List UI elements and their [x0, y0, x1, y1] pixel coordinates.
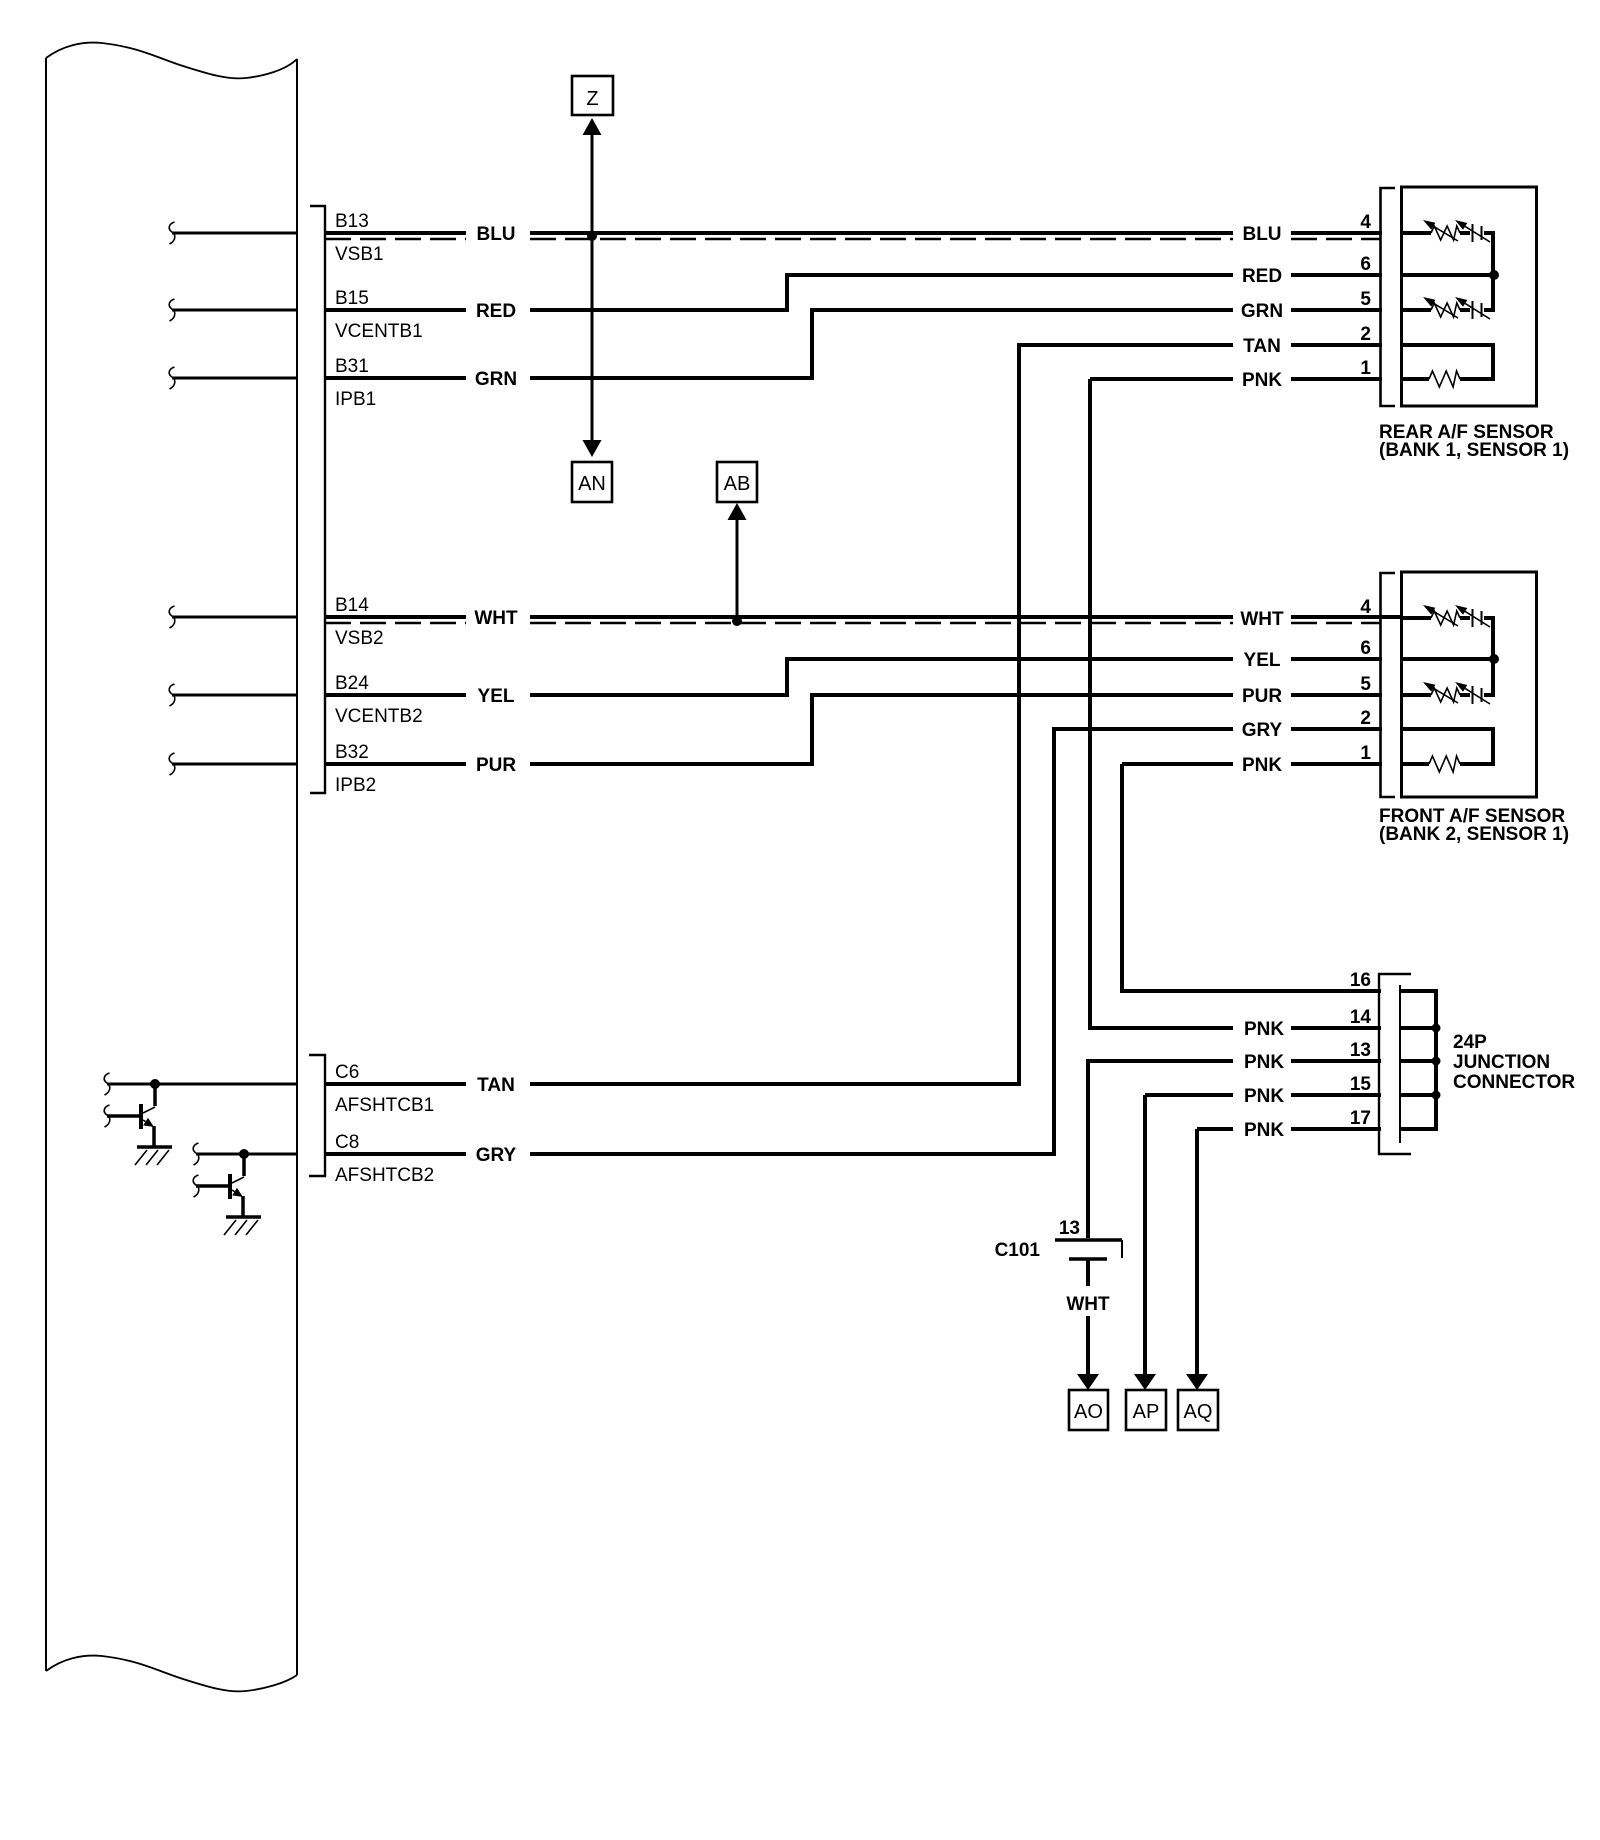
shield dashed line for BLU wire [325, 238, 1380, 240]
label REAR A/F SENSOR [1379, 422, 1569, 461]
svg-text:VCENTB1: VCENTB1 [335, 321, 423, 342]
node box AN [572, 462, 612, 502]
wire label WHT (right) [1240, 609, 1284, 630]
svg-text:13: 13 [1350, 1040, 1371, 1061]
wire PNK (rear A/F sensor pin 1 to 24P junction pin 14) [1090, 379, 1436, 1028]
svg-text:C6: C6 [335, 1062, 359, 1083]
svg-text:PUR: PUR [476, 755, 516, 776]
wire PNK (24P junction pin 17 to AQ) [1197, 1129, 1436, 1374]
wire label TAN (left) [477, 1075, 515, 1096]
wire label YEL (left) [478, 686, 515, 707]
arrowhead into AQ [1186, 1374, 1208, 1390]
node box AO [1069, 1390, 1108, 1430]
transistor Q2 (AFSHTCB2 heater driver) with ground [193, 1149, 261, 1235]
rear A/F sensor heater circuit wire (pin 2) [1403, 345, 1493, 379]
svg-text:WHT: WHT [474, 608, 518, 629]
wire label WHT (C101 to AO) [1066, 1294, 1110, 1315]
transistor Q1 (AFSHTCB1 heater driver) with ground [104, 1079, 172, 1165]
wire label GRN (left) [475, 369, 517, 390]
wire GRY (AFSHTCB2, C8 to front A/F sensor pin 2) [325, 729, 1382, 1154]
svg-text:BLU: BLU [476, 224, 515, 245]
svg-text:IPB2: IPB2 [335, 775, 376, 796]
24P junction connector bus [1434, 989, 1438, 1131]
svg-text:VSB2: VSB2 [335, 628, 384, 649]
wire label YEL (right) [1244, 650, 1281, 671]
svg-text:BLU: BLU [1242, 224, 1281, 245]
svg-text:17: 17 [1350, 1108, 1371, 1129]
svg-text:6: 6 [1360, 638, 1371, 659]
wire label PUR (right) [1242, 686, 1282, 707]
svg-text:VSB1: VSB1 [335, 244, 384, 265]
label FRONT A/F SENSOR [1379, 806, 1569, 845]
svg-text:C101: C101 [995, 1240, 1041, 1261]
junction dot on WHT wire at AB arrow [732, 616, 742, 626]
shield dashed line for WHT wire [325, 622, 1380, 624]
wire GRN (IPB1, B31 to rear A/F sensor pin 5) [325, 310, 1382, 378]
svg-text:PNK: PNK [1244, 1019, 1284, 1040]
wire RED (VCENTB1, B15 to rear A/F sensor pin 6) [325, 275, 1382, 310]
pin label B31 / IPB1 [335, 356, 376, 410]
front sensor pin number 4 [1360, 597, 1371, 618]
wire PNK (C101 to 24P junction pin 13) [1088, 1061, 1436, 1238]
wire BLU (VSB1, B13 to rear A/F sensor pin 4) [325, 231, 1382, 235]
svg-text:1: 1 [1360, 743, 1371, 764]
svg-text:WHT: WHT [1066, 1294, 1110, 1315]
wire PNK (24P junction pin 15 to AP) [1145, 1095, 1436, 1374]
node box AQ [1178, 1390, 1218, 1430]
front A/F sensor connector housing [1381, 572, 1537, 797]
svg-text:B32: B32 [335, 742, 369, 763]
front A/F sensor heater resistor (pin 1) [1403, 756, 1495, 772]
ECM internal wire stub for pin C6 [104, 1073, 297, 1095]
pin label B13 / VSB1 [335, 211, 384, 265]
svg-text:PNK: PNK [1242, 370, 1282, 391]
ECM internal wire stub for pin B32 [169, 753, 297, 775]
24P junction connector bracket [1379, 974, 1411, 1154]
svg-text:6: 6 [1360, 254, 1371, 275]
wire label GRY (left) [476, 1145, 517, 1166]
wire label PNK (junction pin 14) [1244, 1019, 1284, 1040]
ECM internal wire stub for pin C8 [193, 1143, 297, 1165]
svg-text:C8: C8 [335, 1132, 359, 1153]
svg-text:B13: B13 [335, 211, 369, 232]
svg-text:4: 4 [1360, 212, 1371, 233]
wire WHT (C101 to AO) [1077, 1259, 1099, 1390]
svg-text:B15: B15 [335, 288, 369, 309]
front A/F sensor heater circuit wire (pin 2) [1403, 729, 1493, 764]
wire label PNK (junction pin 17) [1244, 1120, 1284, 1141]
svg-text:YEL: YEL [1244, 650, 1281, 671]
wire YEL (VCENTB2, B24 to front A/F sensor pin 6) [325, 659, 1382, 695]
svg-text:2: 2 [1360, 708, 1371, 729]
svg-text:RED: RED [1242, 266, 1282, 287]
rear sensor pin number 5 [1360, 289, 1371, 310]
wire label GRY (right) [1242, 720, 1283, 741]
svg-text:PNK: PNK [1244, 1120, 1284, 1141]
node box AB [717, 462, 757, 502]
svg-text:Z: Z [586, 88, 598, 110]
rear A/F sensor element (pin 5 cell) [1403, 297, 1495, 319]
front sensor pin number 6 [1360, 638, 1371, 659]
svg-text:RED: RED [476, 301, 516, 322]
node box AP [1126, 1390, 1166, 1430]
svg-text:VCENTB2: VCENTB2 [335, 706, 423, 727]
pin label C8 / AFSHTCB2 [335, 1132, 434, 1186]
svg-text:B14: B14 [335, 595, 369, 616]
wire WHT (VSB2, B14 to front A/F sensor pin 4) [325, 615, 1403, 619]
svg-text:16: 16 [1350, 970, 1371, 991]
ECM internal wire stub for pin B31 [169, 367, 297, 389]
svg-text:GRN: GRN [475, 369, 517, 390]
C101 pin number 13 [1059, 1218, 1080, 1239]
arrowhead into AP [1134, 1374, 1156, 1390]
24P junction connector housing line [1399, 985, 1401, 1143]
svg-text:YEL: YEL [478, 686, 515, 707]
node box Z [572, 76, 613, 115]
ECM (engine control module) body, partial outline [46, 43, 297, 1692]
svg-text:1: 1 [1360, 358, 1371, 379]
svg-text:14: 14 [1350, 1007, 1372, 1028]
svg-text:B24: B24 [335, 673, 369, 694]
front sensor pin number 5 [1360, 674, 1371, 695]
junction dot bus pin 14 [1432, 1024, 1441, 1033]
rear A/F sensor junction dot at pin 6 [1403, 270, 1499, 280]
svg-text:PUR: PUR [1242, 686, 1282, 707]
svg-text:JUNCTION: JUNCTION [1453, 1052, 1550, 1073]
rear sensor pin number 6 [1360, 254, 1371, 275]
pin label B15 / VCENTB1 [335, 288, 423, 342]
junction connector pin number 17 [1350, 1108, 1371, 1129]
rear A/F sensor connector housing [1381, 187, 1537, 406]
svg-text:IPB1: IPB1 [335, 389, 376, 410]
svg-text:5: 5 [1360, 289, 1371, 310]
pin label B32 / IPB2 [335, 742, 376, 796]
wire label BLU (right) [1242, 224, 1281, 245]
front A/F sensor element (pin 4 cell) [1403, 605, 1495, 627]
wire label WHT (left) [474, 608, 518, 629]
ECM connector B bracket [310, 206, 325, 793]
wire label RED (left) [476, 301, 516, 322]
svg-text:GRY: GRY [1242, 720, 1283, 741]
svg-text:PNK: PNK [1244, 1052, 1284, 1073]
pin label B24 / VCENTB2 [335, 673, 423, 727]
rear sensor pin number 2 [1360, 324, 1371, 345]
svg-text:2: 2 [1360, 324, 1371, 345]
C101 reference label [995, 1240, 1041, 1261]
svg-text:TAN: TAN [477, 1075, 515, 1096]
rear sensor pin number 4 [1360, 212, 1371, 233]
svg-text:AFSHTCB2: AFSHTCB2 [335, 1165, 434, 1186]
svg-text:AO: AO [1074, 1401, 1103, 1423]
svg-text:5: 5 [1360, 674, 1371, 695]
ECM internal wire stub for pin B15 [169, 299, 297, 321]
svg-text:AN: AN [578, 473, 606, 495]
wire TAN (AFSHTCB1, C6 to rear A/F sensor pin 2) [325, 345, 1382, 1084]
interconnect arrow to AB [728, 503, 747, 619]
pin label B14 / VSB2 [335, 595, 384, 649]
svg-text:AFSHTCB1: AFSHTCB1 [335, 1095, 434, 1116]
svg-text:WHT: WHT [1240, 609, 1284, 630]
junction connector pin number 14 [1350, 1007, 1372, 1028]
svg-text:CONNECTOR: CONNECTOR [1453, 1072, 1575, 1093]
svg-text:AQ: AQ [1184, 1401, 1213, 1423]
front sensor pin number 2 [1360, 708, 1371, 729]
wire label GRN (right) [1241, 301, 1283, 322]
svg-text:TAN: TAN [1243, 336, 1281, 357]
pin label C6 / AFSHTCB1 [335, 1062, 434, 1116]
junction connector pin number 15 [1350, 1074, 1372, 1095]
svg-text:PNK: PNK [1242, 755, 1282, 776]
svg-text:PNK: PNK [1244, 1086, 1284, 1107]
ECM internal wire stub for pin B24 [169, 684, 297, 706]
junction dot on BLU wire at Z/AN arrow [587, 231, 597, 241]
svg-text:GRN: GRN [1241, 301, 1283, 322]
wire label RED (right) [1242, 266, 1282, 287]
wire label PUR (left) [476, 755, 516, 776]
wire label PNK (junction pin 15) [1244, 1086, 1284, 1107]
label 24P JUNCTION CONNECTOR [1453, 1032, 1575, 1093]
svg-text:AB: AB [724, 473, 751, 495]
rear sensor pin number 1 [1360, 358, 1371, 379]
rear A/F sensor element (pin 4 cell) [1403, 220, 1495, 242]
wire label PNK (front sensor pin 1) [1242, 755, 1282, 776]
front sensor pin number 1 [1360, 743, 1371, 764]
front A/F sensor junction dot at pin 6 [1403, 654, 1499, 664]
svg-text:24P: 24P [1453, 1032, 1487, 1053]
wire label TAN (right) [1243, 336, 1281, 357]
wire label BLU (left) [476, 224, 515, 245]
wire PUR (IPB2, B32 to front A/F sensor pin 5) [325, 695, 1382, 764]
svg-text:(BANK 1, SENSOR 1): (BANK 1, SENSOR 1) [1379, 440, 1569, 461]
interconnect arrow Z to AN (double headed) [583, 118, 602, 457]
front A/F sensor internal wire pin4-pin6-pin5 [1491, 616, 1495, 695]
svg-text:15: 15 [1350, 1074, 1372, 1095]
junction connector pin number 13 [1350, 1040, 1371, 1061]
svg-text:4: 4 [1360, 597, 1371, 618]
svg-text:B31: B31 [335, 356, 369, 377]
svg-text:13: 13 [1059, 1218, 1080, 1239]
junction connector pin number 16 [1350, 970, 1371, 991]
junction dot bus pin 13 [1432, 1057, 1441, 1066]
ECM internal wire stub for pin B14 [169, 606, 297, 628]
wire label PNK (junction pin 13) [1244, 1052, 1284, 1073]
rear A/F sensor heater resistor (pin 1) [1403, 371, 1495, 387]
in-line connector C101 pin 13 [1055, 1240, 1122, 1259]
svg-text:AP: AP [1133, 1401, 1160, 1423]
rear A/F sensor internal wire pin4-pin6-pin5 [1491, 231, 1495, 310]
wire label PNK (rear sensor pin 1) [1242, 370, 1282, 391]
svg-text:(BANK 2, SENSOR 1): (BANK 2, SENSOR 1) [1379, 824, 1569, 845]
wire PNK (front A/F sensor pin 1 to 24P junction pin 16) [1122, 764, 1436, 991]
ECM connector C bracket [309, 1055, 325, 1176]
front A/F sensor element (pin 5 cell) [1403, 682, 1495, 704]
svg-text:GRY: GRY [476, 1145, 517, 1166]
ECM internal wire stub for pin B13 [169, 222, 297, 244]
junction dot bus pin 15 [1432, 1091, 1441, 1100]
